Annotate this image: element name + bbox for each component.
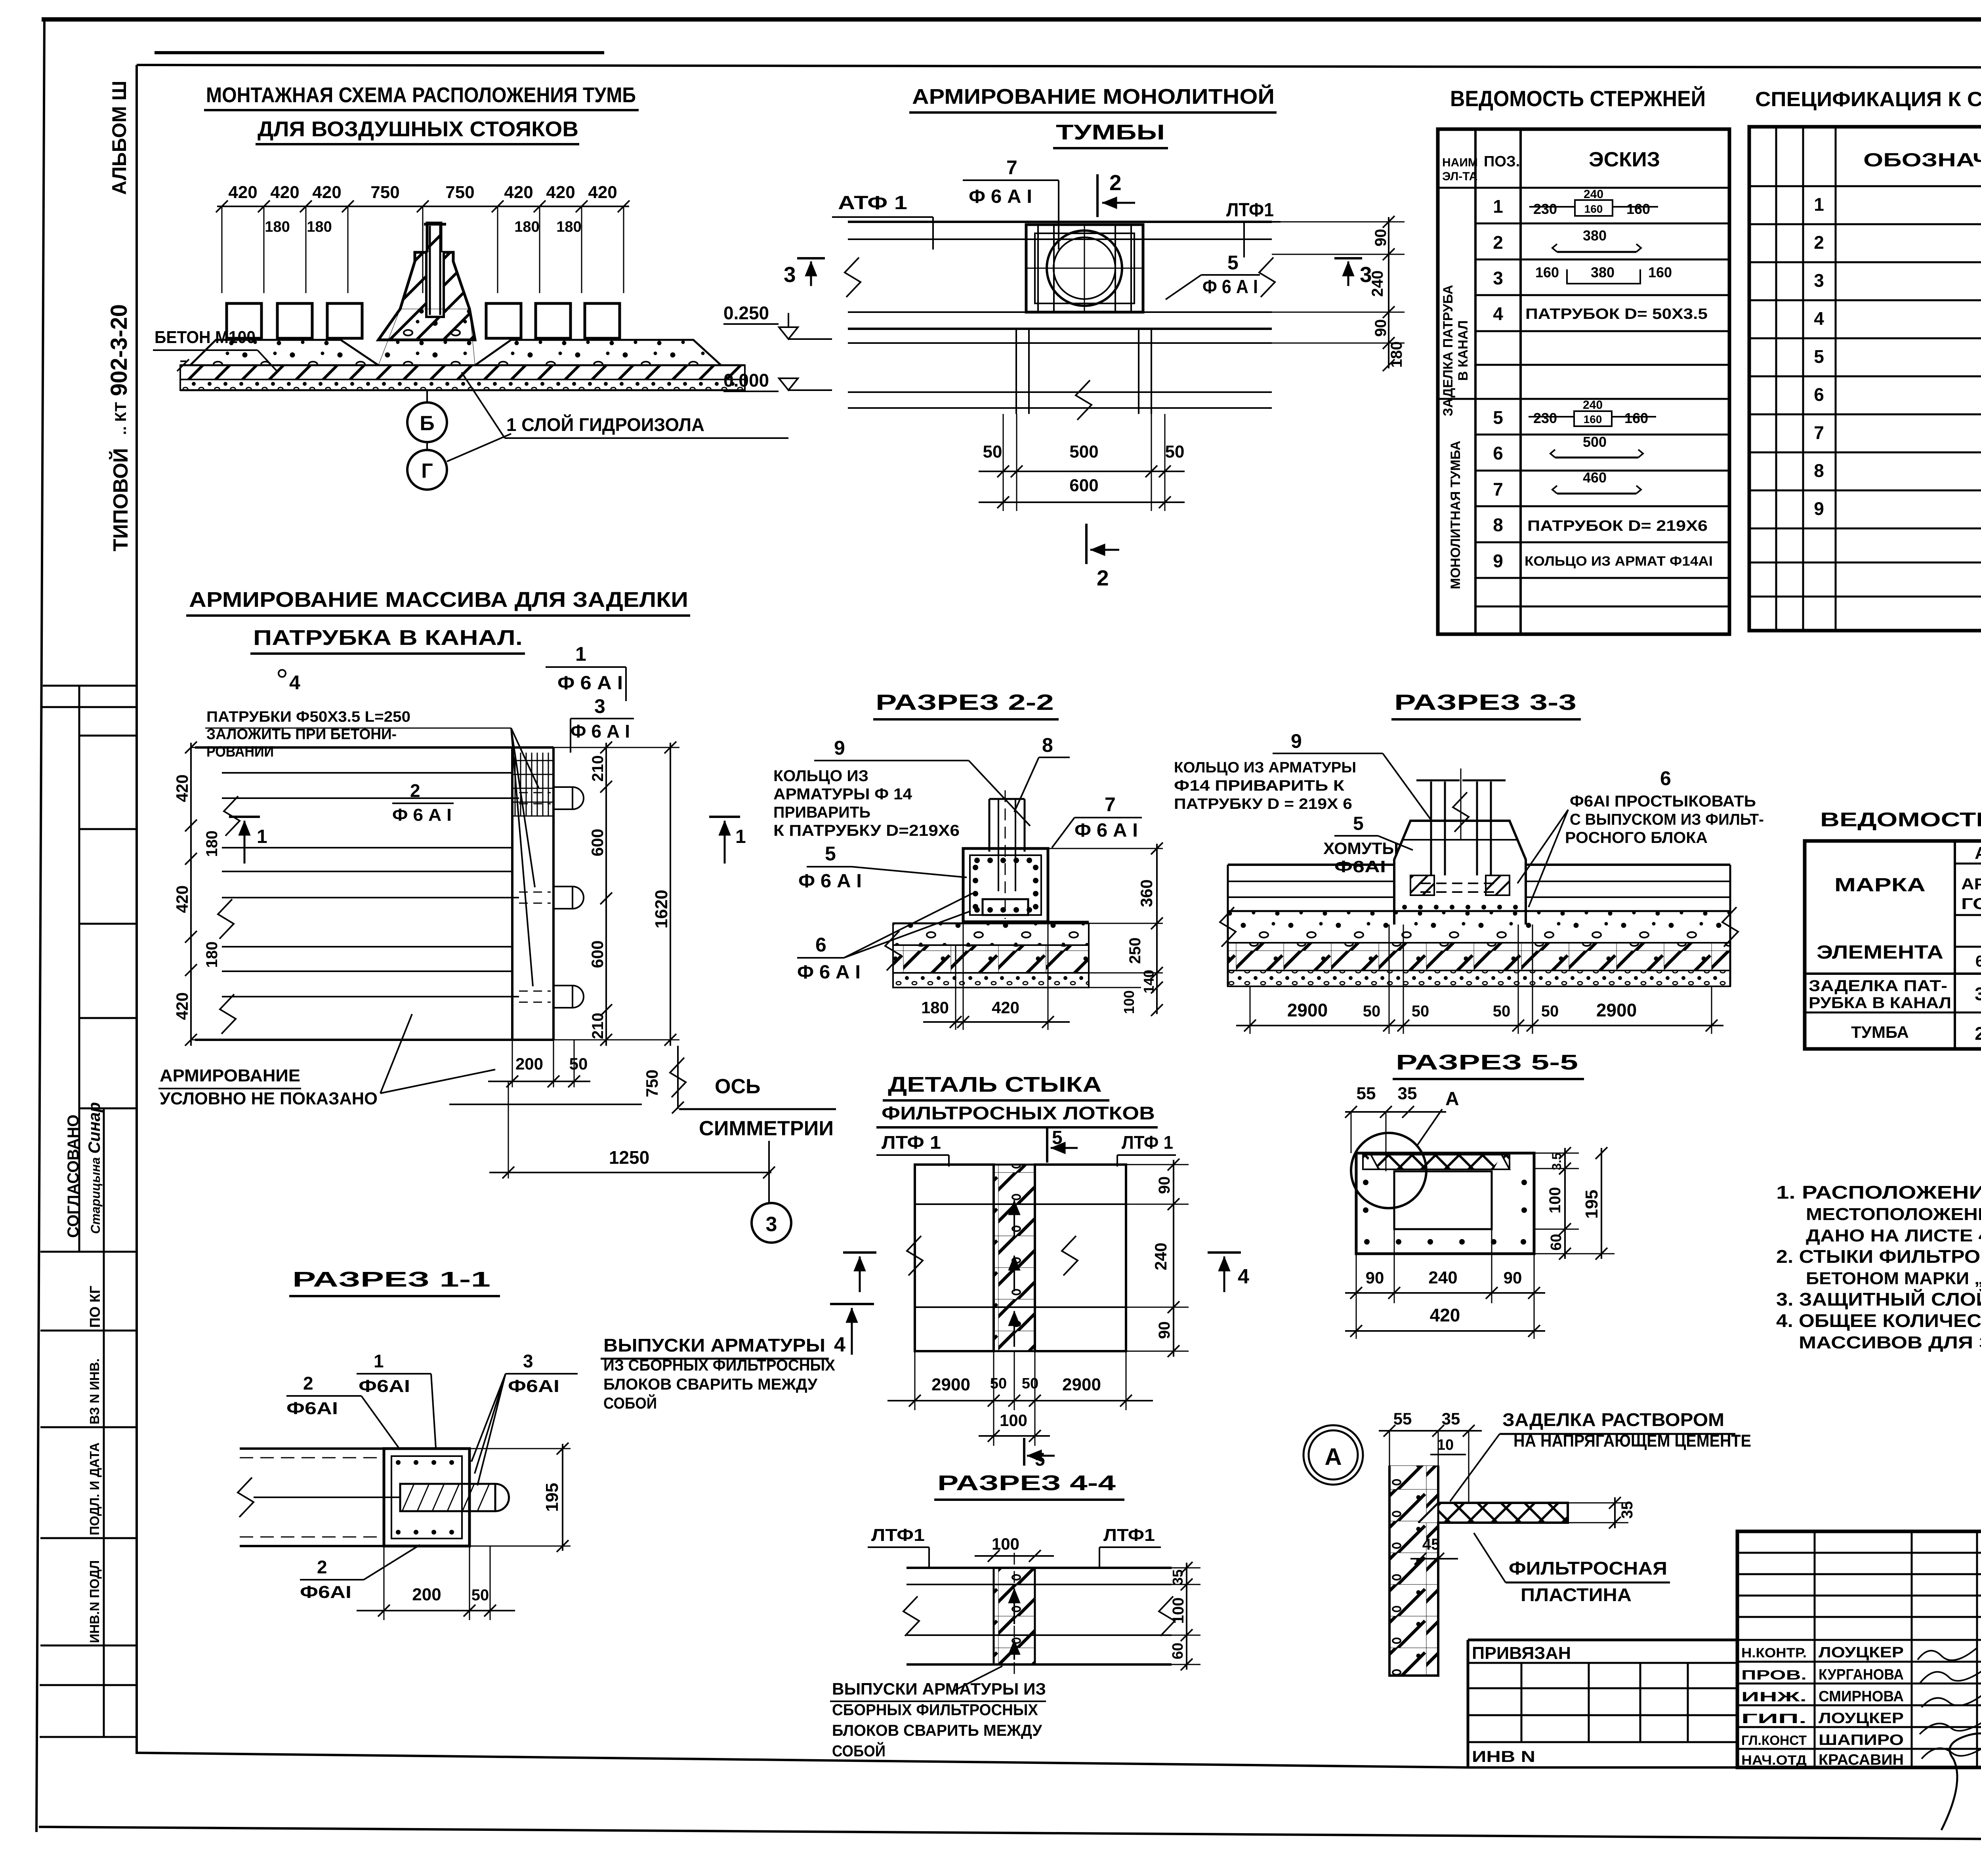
margin text Альбом Ш xyxy=(108,81,130,195)
svg-text:2900: 2900 xyxy=(1596,1000,1637,1020)
svg-text:РОВАНИИ: РОВАНИИ xyxy=(206,744,274,760)
svg-text:РОСНОГО БЛОКА: РОСНОГО БЛОКА xyxy=(1565,829,1708,846)
svg-text:2900: 2900 xyxy=(1062,1375,1101,1394)
svg-text:ЛОУЦКЕР: ЛОУЦКЕР xyxy=(1819,1644,1904,1661)
svg-text:УСЛОВНО НЕ ПОКАЗАНО: УСЛОВНО НЕ ПОКАЗАНО xyxy=(160,1089,378,1108)
svg-text:МАССИВОВ ДЛЯ ЗАДЕЛКИ ПАТРУБКА: МАССИВОВ ДЛЯ ЗАДЕЛКИ ПАТРУБКА В КАНАЛ - … xyxy=(1799,1333,1981,1352)
svg-text:ЗАДЕЛКА ПАТРУБА: ЗАДЕЛКА ПАТРУБА xyxy=(1441,285,1456,416)
drawing3 axis text Ось симметрии xyxy=(449,1075,836,1140)
section1-1 labels xyxy=(286,1351,578,1602)
svg-text:500: 500 xyxy=(1069,442,1098,461)
svg-text:БЕТОН М100: БЕТОН М100 xyxy=(155,328,256,347)
svg-text:МОНТАЖНАЯ СХЕМА РАСПОЛОЖЕНИЯ: МОНТАЖНАЯ СХЕМА РАСПОЛОЖЕНИЯ ТУМБ xyxy=(206,83,636,107)
svg-text:4: 4 xyxy=(1814,308,1824,329)
stamp signature Старицына xyxy=(85,1102,103,1234)
svg-text:ЛОУЦКЕР: ЛОУЦКЕР xyxy=(1819,1710,1904,1727)
section2-2 label 7 xyxy=(1052,793,1142,848)
svg-text:С ВЫПУСКОМ ИЗ ФИЛЬТ-: С ВЫПУСКОМ ИЗ ФИЛЬТ- xyxy=(1570,811,1764,828)
section1-1 title xyxy=(289,1268,500,1296)
detailA dims 55 35 10 xyxy=(1379,1409,1482,1503)
svg-text:250: 250 xyxy=(1126,938,1144,964)
svg-text:380: 380 xyxy=(1591,264,1615,280)
drawing2 center square with pipe circle xyxy=(1026,225,1143,312)
svg-text:4: 4 xyxy=(1238,1265,1249,1288)
svg-text:50: 50 xyxy=(990,1375,1007,1392)
section4-4 drawing xyxy=(903,1553,1175,1680)
svg-text:1: 1 xyxy=(1493,196,1503,217)
svg-text:2: 2 xyxy=(303,1373,313,1394)
svg-text:180: 180 xyxy=(265,219,290,235)
svg-text:9: 9 xyxy=(1291,730,1302,752)
svg-text:180: 180 xyxy=(921,998,949,1017)
svg-text:60: 60 xyxy=(1170,1643,1186,1659)
section5-5 right dims xyxy=(1534,1147,1615,1260)
svg-text:2: 2 xyxy=(1975,1023,1981,1044)
stamp label ВЗ N ИНВ xyxy=(87,1358,102,1424)
svg-text:3: 3 xyxy=(766,1213,777,1236)
drawing3 note армирование условно не показано xyxy=(158,1014,495,1108)
section4-4 title xyxy=(934,1471,1124,1500)
svg-text:СОБОЙ: СОБОЙ xyxy=(832,1742,886,1760)
steel table data rows xyxy=(1809,977,1981,1044)
drawing1 blocks row xyxy=(227,303,620,338)
drawing1 level mark 0.250 xyxy=(723,303,832,339)
svg-text:420: 420 xyxy=(173,774,191,802)
svg-text:ПОДЛ. И ДАТА: ПОДЛ. И ДАТА xyxy=(87,1443,102,1535)
svg-text:50: 50 xyxy=(1493,1003,1511,1020)
drawing1 label 1 слой гидроизола xyxy=(462,372,788,438)
svg-text:НАИМ: НАИМ xyxy=(1442,156,1478,169)
svg-text:420: 420 xyxy=(1430,1305,1460,1325)
drawing3 label 2 Ф6АI mid xyxy=(392,780,454,825)
svg-text:ИЗ СБОРНЫХ ФИЛЬТРОСНЫХ: ИЗ СБОРНЫХ ФИЛЬТРОСНЫХ xyxy=(603,1357,835,1374)
margin text 902-3-20 xyxy=(106,304,132,396)
drawing1 axis circles Б Г xyxy=(407,390,511,490)
svg-text:5: 5 xyxy=(1493,407,1503,428)
svg-text:СОГЛАСОВАНО: СОГЛАСОВАНО xyxy=(65,1115,82,1238)
svg-text:ГЛ.КОНСТ: ГЛ.КОНСТ xyxy=(1741,1733,1807,1748)
svg-text:90: 90 xyxy=(1372,229,1389,247)
svg-text:4: 4 xyxy=(1493,303,1503,324)
svg-text:3: 3 xyxy=(1975,984,1981,1004)
detailA drawing xyxy=(1389,1466,1568,1676)
svg-text:2900: 2900 xyxy=(931,1375,970,1394)
svg-text:АРМАТУРЫ Ф 14: АРМАТУРЫ Ф 14 xyxy=(773,785,912,803)
svg-text:180: 180 xyxy=(514,219,539,235)
svg-text:ФИЛЬТРОСНАЯ: ФИЛЬТРОСНАЯ xyxy=(1509,1558,1667,1579)
svg-text:8: 8 xyxy=(1814,460,1824,481)
svg-text:СМИРНОВА: СМИРНОВА xyxy=(1819,1688,1904,1705)
svg-text:50: 50 xyxy=(983,442,1002,461)
svg-text:ВЕДОМОСТЬ СТЕРЖНЕЙ: ВЕДОМОСТЬ СТЕРЖНЕЙ xyxy=(1450,86,1706,111)
table1 sketches xyxy=(1525,188,1713,569)
svg-text:В КАНАЛ: В КАНАЛ xyxy=(1456,320,1471,381)
svg-text:РАЗРЕЗ 1-1: РАЗРЕЗ 1-1 xyxy=(292,1268,490,1291)
title block texts xyxy=(1472,1557,1981,1769)
svg-text:50: 50 xyxy=(471,1586,489,1604)
svg-text:90: 90 xyxy=(1372,319,1389,337)
drawing2 label 5 Ф6АI xyxy=(1166,252,1260,299)
drawing3 dim 750 to axis xyxy=(643,1046,686,1113)
svg-text:ВЫПУСКИ АРМАТУРЫ ИЗ: ВЫПУСКИ АРМАТУРЫ ИЗ xyxy=(832,1680,1046,1698)
svg-text:Ф 6 А I: Ф 6 А I xyxy=(969,186,1032,207)
svg-text:160: 160 xyxy=(1648,264,1672,280)
svg-text:Ф 6 А I: Ф 6 А I xyxy=(1202,276,1258,297)
svg-text:600: 600 xyxy=(1069,476,1098,495)
svg-text:9: 9 xyxy=(834,737,845,759)
svg-text:2: 2 xyxy=(410,780,420,801)
section2-2 label 6 xyxy=(797,893,973,983)
svg-text:2: 2 xyxy=(1814,232,1824,253)
svg-text:ЭСКИЗ: ЭСКИЗ xyxy=(1589,148,1660,171)
section3-3 label 6 xyxy=(1517,767,1764,907)
svg-text:0.250: 0.250 xyxy=(723,303,769,323)
drawing2 plan band xyxy=(845,222,1275,408)
svg-text:45: 45 xyxy=(1422,1536,1440,1553)
detailA label заделка раствором xyxy=(1450,1409,1751,1501)
svg-text:1620: 1620 xyxy=(652,890,671,928)
svg-text:ИНЖ.: ИНЖ. xyxy=(1741,1689,1807,1704)
table1 header xyxy=(1442,148,1660,183)
svg-text:2: 2 xyxy=(1493,232,1503,253)
svg-text:7: 7 xyxy=(1006,156,1017,179)
svg-text:Ф6АI: Ф6АI xyxy=(1334,857,1386,876)
svg-text:Б: Б xyxy=(420,412,434,435)
section2-2 right dims xyxy=(1048,843,1163,1016)
svg-text:3: 3 xyxy=(594,695,605,717)
svg-text:90: 90 xyxy=(1156,1176,1173,1194)
svg-text:4. ОБЩЕЕ КОЛИЧЕСТВО ТУМБ ДЛЯ: 4. ОБЩЕЕ КОЛИЧЕСТВО ТУМБ ДЛЯ ВОЗДУШНЫХ С… xyxy=(1776,1310,1981,1331)
svg-text:БЛОКОВ СВАРИТЬ МЕЖДУ: БЛОКОВ СВАРИТЬ МЕЖДУ xyxy=(603,1376,818,1393)
svg-text:РАЗРЕЗ 3-3: РАЗРЕЗ 3-3 xyxy=(1394,690,1576,715)
drawing3 label 3 Ф6АI xyxy=(571,695,634,753)
svg-text:750: 750 xyxy=(370,183,399,202)
svg-text:АЛЬБОМ Ш: АЛЬБОМ Ш xyxy=(108,81,130,195)
svg-text:НА НАПРЯГАЮЩЕМ ЦЕМЕНТЕ: НА НАПРЯГАЮЩЕМ ЦЕМЕНТЕ xyxy=(1513,1431,1751,1451)
svg-text:2. СТЫКИ ФИЛЬТРОСНЫХ ЛОТКО: 2. СТЫКИ ФИЛЬТРОСНЫХ ЛОТКОВ ЗАМОНОЛИЧИВА… xyxy=(1776,1246,1981,1267)
svg-text:ДАНО НА ЛИСТЕ 4,7.: ДАНО НА ЛИСТЕ 4,7. xyxy=(1806,1226,1981,1245)
notes list xyxy=(1776,1182,1981,1352)
svg-text:420: 420 xyxy=(270,183,299,202)
svg-text:КОЛЬЦО ИЗ: КОЛЬЦО ИЗ xyxy=(773,767,868,785)
svg-text:1: 1 xyxy=(257,826,267,847)
svg-text:8: 8 xyxy=(1493,515,1503,535)
svg-text:100: 100 xyxy=(1000,1411,1027,1430)
svg-text:90: 90 xyxy=(1156,1321,1173,1339)
detailA circle xyxy=(1303,1425,1363,1485)
svg-text:50: 50 xyxy=(1022,1375,1038,1392)
svg-text:ПО КГ: ПО КГ xyxy=(87,1286,103,1328)
svg-text:240: 240 xyxy=(1583,398,1603,412)
svg-text:РУБКА В КАНАЛ: РУБКА В КАНАЛ xyxy=(1809,994,1951,1012)
section3-3 title xyxy=(1391,690,1581,719)
svg-text:ТУМБА: ТУМБА xyxy=(1851,1023,1909,1041)
svg-text:ОСЬ: ОСЬ xyxy=(715,1075,760,1098)
svg-text:ЛТФ 1: ЛТФ 1 xyxy=(1122,1132,1173,1153)
svg-text:160: 160 xyxy=(1624,410,1648,426)
svg-text:ДЛЯ ВОЗДУШНЫХ СТОЯКОВ: ДЛЯ ВОЗДУШНЫХ СТОЯКОВ xyxy=(258,117,578,141)
section1-1 upper note Выпуски арматуры 4 xyxy=(601,1304,874,1412)
svg-text:СБОРНЫХ ФИЛЬТРОСНЫХ: СБОРНЫХ ФИЛЬТРОСНЫХ xyxy=(832,1701,1038,1719)
svg-text:3.5: 3.5 xyxy=(1550,1153,1564,1170)
svg-text:50: 50 xyxy=(569,1054,588,1073)
svg-text:АРМАТУРНЫЕ ИЗДЕЛИЯ: АРМАТУРНЫЕ ИЗДЕЛИЯ xyxy=(1975,843,1981,863)
svg-text:90: 90 xyxy=(1366,1268,1384,1287)
svg-text:420: 420 xyxy=(228,183,257,202)
svg-text:600: 600 xyxy=(588,940,607,968)
svg-text:195: 195 xyxy=(1582,1190,1601,1218)
svg-text:1: 1 xyxy=(575,643,586,665)
stamp label ИНВ N ПОДЛ xyxy=(87,1560,102,1643)
svg-text:ХОМУТЫ: ХОМУТЫ xyxy=(1323,839,1399,858)
svg-text:35: 35 xyxy=(1170,1569,1186,1585)
svg-text:5: 5 xyxy=(1814,346,1824,367)
svg-text:2: 2 xyxy=(317,1557,327,1577)
svg-text:ЗАДЕЛКА ПАТ-: ЗАДЕЛКА ПАТ- xyxy=(1809,977,1947,995)
drawing2 section marks 3 xyxy=(784,258,1372,287)
section2-2 label 8 xyxy=(1014,734,1070,812)
svg-text:ДЕТАЛЬ СТЫКА: ДЕТАЛЬ СТЫКА xyxy=(888,1073,1102,1096)
svg-text:ТУМБЫ: ТУМБЫ xyxy=(1056,120,1165,144)
drawing2 label 7 Ф6АI xyxy=(963,156,1059,250)
svg-text:РАЗРЕЗ 2-2: РАЗРЕЗ 2-2 xyxy=(876,690,1054,715)
joint detail labels xyxy=(876,1127,1176,1167)
svg-text:50: 50 xyxy=(1165,442,1185,461)
svg-text:50: 50 xyxy=(1363,1003,1381,1020)
svg-text:1: 1 xyxy=(735,826,746,847)
drawing1 title xyxy=(204,83,639,144)
svg-text:3: 3 xyxy=(1493,268,1503,288)
section3-3 bottom dims xyxy=(1236,925,1723,1034)
section2-2 label 5 xyxy=(798,843,967,892)
svg-text:КРАСАВИН: КРАСАВИН xyxy=(1819,1752,1904,1768)
svg-text:ПАТРУБКУ D = 219X 6: ПАТРУБКУ D = 219X 6 xyxy=(1174,796,1352,812)
svg-text:ПОЗ.: ПОЗ. xyxy=(1484,153,1520,170)
section5-5 drawing xyxy=(1351,1133,1534,1254)
drawing2 bottom dims 50 500 50 600 xyxy=(979,414,1185,511)
left stamp column grid xyxy=(40,686,137,1737)
svg-text:МОНОЛИТНАЯ ТУМБА: МОНОЛИТНАЯ ТУМБА xyxy=(1448,441,1463,589)
svg-text:Ф6АI: Ф6АI xyxy=(300,1582,351,1602)
svg-text:АРМАТУРНАЯ СТАЛЬ: АРМАТУРНАЯ СТАЛЬ xyxy=(1961,875,1981,893)
svg-text:3: 3 xyxy=(1814,270,1824,291)
drawing2 right dim chain xyxy=(1272,216,1405,371)
svg-text:0.000: 0.000 xyxy=(723,370,769,391)
svg-text:АРМИРОВАНИЕ МАССИВА ДЛЯ ЗАД: АРМИРОВАНИЕ МАССИВА ДЛЯ ЗАДЕЛКИ xyxy=(189,588,688,612)
svg-text:Ф 6 А I: Ф 6 А I xyxy=(571,721,630,742)
table2 grid xyxy=(1749,127,1981,631)
svg-text:6: 6 xyxy=(815,934,826,956)
drawing1 pedestal xyxy=(378,223,475,340)
svg-text:600: 600 xyxy=(588,829,607,856)
svg-text:ПАТРУБКА В КАНАЛ.: ПАТРУБКА В КАНАЛ. xyxy=(253,626,523,650)
drawing2 channel below xyxy=(1016,329,1151,420)
svg-text:160: 160 xyxy=(1535,264,1559,280)
section2-2 bottom dims 180 420 xyxy=(921,922,1070,1030)
drawing1 top dimension chain xyxy=(216,183,630,293)
section5-5 top dims 55 35 A xyxy=(1345,1084,1459,1171)
svg-text:750: 750 xyxy=(643,1070,661,1097)
svg-text:Н.КОНТР.: Н.КОНТР. xyxy=(1741,1645,1807,1661)
svg-text:СПЕЦИФИКАЦИЯ К СХЕМАМ РАСПОЛОЖ: СПЕЦИФИКАЦИЯ К СХЕМАМ РАСПОЛОЖЕНИЯ АРМАТ… xyxy=(1755,88,1981,111)
svg-text:КОЛЬЦО ИЗ АРМАТУРЫ: КОЛЬЦО ИЗ АРМАТУРЫ xyxy=(1174,759,1356,776)
table1 row numbers xyxy=(1493,196,1503,571)
svg-text:МЕСТОПОЛОЖЕНИЕМ ТУМБ И ВОДОБЫБ: МЕСТОПОЛОЖЕНИЕМ ТУМБ И ВОДОБЫБРОСНЫХ СТО… xyxy=(1806,1205,1981,1224)
drawing2 section mark 2 bottom xyxy=(1086,524,1119,590)
svg-text:420: 420 xyxy=(504,183,533,202)
title block grid xyxy=(1468,1531,1981,1767)
svg-text:240: 240 xyxy=(1584,188,1603,201)
svg-text:СИММЕТРИИ: СИММЕТРИИ xyxy=(699,1117,834,1140)
svg-text:8: 8 xyxy=(1042,734,1053,756)
svg-text:420: 420 xyxy=(588,183,617,202)
svg-text:А: А xyxy=(1445,1089,1459,1110)
table2 header xyxy=(1863,145,1981,183)
svg-text:3. ЗАЩИТНЫЙ СЛОЙ БЕТОНА- 2: 3. ЗАЩИТНЫЙ СЛОЙ БЕТОНА- 20 ММ. xyxy=(1776,1289,1981,1310)
svg-text:ПРИВАРИТЬ: ПРИВАРИТЬ xyxy=(773,804,870,821)
drawing3 right dim chains xyxy=(553,742,679,1046)
svg-text:1 СЛОЙ ГИДРОИЗОЛА: 1 СЛОЙ ГИДРОИЗОЛА xyxy=(506,414,704,435)
table1 rotated group labels xyxy=(1441,285,1471,416)
svg-text:Ф6АI ПРОСТЫКОВАТЬ: Ф6АI ПРОСТЫКОВАТЬ xyxy=(1570,793,1756,810)
section3-3 label 9 кольцо xyxy=(1174,730,1431,820)
svg-text:1: 1 xyxy=(374,1351,384,1371)
section2-2 drawing xyxy=(885,790,1089,988)
svg-text:195: 195 xyxy=(542,1483,562,1512)
svg-text:9: 9 xyxy=(1493,551,1503,571)
svg-text:180: 180 xyxy=(203,831,221,857)
section5-5 title xyxy=(1393,1050,1584,1079)
drawing1 label Бетон М100 xyxy=(153,328,277,372)
svg-text:4: 4 xyxy=(289,671,300,694)
svg-text:160: 160 xyxy=(1626,201,1650,217)
svg-text:ОБОЗНАЧЕНИЕ: ОБОЗНАЧЕНИЕ xyxy=(1863,150,1981,171)
svg-text:НАЧ.ОТД: НАЧ.ОТД xyxy=(1741,1753,1807,1768)
joint detail title xyxy=(876,1073,1158,1127)
svg-text:5: 5 xyxy=(1035,1449,1045,1470)
svg-text:7: 7 xyxy=(1493,479,1503,500)
svg-text:420: 420 xyxy=(173,992,191,1020)
svg-text:3: 3 xyxy=(523,1351,533,1371)
drawing2 label ЛТФ1 xyxy=(1222,200,1281,257)
svg-text:ЛТФ 1: ЛТФ 1 xyxy=(882,1132,941,1153)
svg-text:7: 7 xyxy=(1814,422,1824,443)
svg-text:750: 750 xyxy=(445,183,474,202)
svg-text:55: 55 xyxy=(1393,1409,1412,1428)
svg-text:180: 180 xyxy=(203,942,221,968)
svg-text:180: 180 xyxy=(1388,341,1405,368)
svg-text:2900: 2900 xyxy=(1287,1000,1328,1020)
svg-text:420: 420 xyxy=(173,885,191,913)
svg-text:ЛТФ1: ЛТФ1 xyxy=(871,1525,925,1545)
svg-text:РАЗРЕЗ 5-5: РАЗРЕЗ 5-5 xyxy=(1396,1050,1578,1074)
drawing1 level mark 0.000 xyxy=(723,370,832,391)
section5-5 bottom dims xyxy=(1345,1229,1545,1339)
svg-text:АТФ 1: АТФ 1 xyxy=(838,193,907,214)
steel table title xyxy=(1820,808,1981,831)
svg-text:35: 35 xyxy=(1618,1501,1636,1519)
svg-text:160: 160 xyxy=(1584,413,1602,425)
svg-text:ЛТФ1: ЛТФ1 xyxy=(1226,200,1274,221)
svg-text:230: 230 xyxy=(1533,201,1557,217)
svg-text:55: 55 xyxy=(1357,1084,1376,1103)
svg-text:ЭЛЕМЕНТА: ЭЛЕМЕНТА xyxy=(1817,942,1943,963)
svg-text:ПЛАСТИНА: ПЛАСТИНА xyxy=(1521,1584,1632,1605)
svg-text:3: 3 xyxy=(784,262,796,287)
svg-text:9: 9 xyxy=(1814,498,1824,519)
joint detail section marks 4 xyxy=(843,1253,1249,1292)
detailA dims 35 45 xyxy=(1410,1497,1636,1565)
drawing3 section mark 1 left xyxy=(229,817,267,864)
svg-text:КОЛЬЦО ИЗ АРМАТ Ф14АI: КОЛЬЦО ИЗ АРМАТ Ф14АI xyxy=(1525,554,1713,569)
svg-text:СОБОЙ: СОБОЙ xyxy=(603,1394,657,1412)
stamp label ПО КГ xyxy=(87,1286,103,1328)
table2 position numbers xyxy=(1814,194,1824,519)
svg-text:Ф14 ПРИВАРИТЬ К: Ф14 ПРИВАРИТЬ К xyxy=(1174,778,1345,794)
svg-text:К ПАТРУБКУ D=219X6: К ПАТРУБКУ D=219X6 xyxy=(773,822,960,839)
svg-text:Ф 6 А I: Ф 6 А I xyxy=(798,871,862,892)
svg-text:ПАТРУБКИ Ф50X3.5 L=250: ПАТРУБКИ Ф50X3.5 L=250 xyxy=(206,709,410,725)
svg-text:ПРОВ.: ПРОВ. xyxy=(1741,1668,1807,1683)
joint detail bottom dims xyxy=(887,1351,1153,1470)
svg-text:35: 35 xyxy=(1398,1084,1417,1103)
svg-text:1: 1 xyxy=(1814,194,1824,215)
svg-text:360: 360 xyxy=(1137,879,1156,907)
drawing3 bottom dims 200 50 xyxy=(488,1040,590,1087)
section4-4 labels xyxy=(868,1525,1161,1567)
svg-text:60: 60 xyxy=(1548,1234,1565,1251)
svg-text:140: 140 xyxy=(1141,970,1157,993)
svg-text:ПАТРУБОК D= 50X3.5: ПАТРУБОК D= 50X3.5 xyxy=(1525,306,1708,322)
svg-text:ЭЛ-ТА: ЭЛ-ТА xyxy=(1442,170,1477,183)
joint detail right dims 90 240 90 xyxy=(1126,1159,1189,1357)
section2-2 title xyxy=(873,690,1059,719)
joint detail drawing xyxy=(907,1165,1126,1351)
svg-text:460: 460 xyxy=(1583,469,1607,486)
svg-text:ПАТРУБОК D= 219X6: ПАТРУБОК D= 219X6 xyxy=(1527,518,1708,534)
svg-text:4: 4 xyxy=(834,1333,845,1356)
svg-text:ИНВ.N ПОДЛ: ИНВ.N ПОДЛ xyxy=(87,1560,102,1643)
svg-text:210: 210 xyxy=(589,1013,607,1039)
drawing3 title xyxy=(186,588,690,654)
drawing2 section mark 2 top xyxy=(1097,170,1135,217)
margin text Типовой проект xyxy=(109,402,132,551)
section3-3 label 5 хомуты xyxy=(1323,813,1413,876)
svg-text:7: 7 xyxy=(1105,793,1116,816)
svg-text:180: 180 xyxy=(307,219,332,235)
svg-text:Г: Г xyxy=(421,459,433,482)
svg-text:6: 6 xyxy=(1493,443,1503,463)
svg-text:КУРГАНОВА: КУРГАНОВА xyxy=(1819,1666,1904,1683)
drawing3 dim 1250 and axis circle 3 xyxy=(489,1081,791,1243)
svg-text:5: 5 xyxy=(1227,252,1239,274)
svg-text:БЕТОНОМ МАРКИ „300".: БЕТОНОМ МАРКИ „300". xyxy=(1806,1269,1981,1288)
svg-text:240: 240 xyxy=(1151,1243,1170,1270)
svg-text:Ф6АI: Ф6АI xyxy=(359,1376,410,1396)
svg-text:420: 420 xyxy=(992,998,1019,1017)
svg-text:АРМИРОВАНИЕ МОНОЛИТНОЙ: АРМИРОВАНИЕ МОНОЛИТНОЙ xyxy=(912,84,1275,109)
svg-text:5: 5 xyxy=(825,843,836,865)
svg-text:420: 420 xyxy=(546,183,575,202)
svg-text:50: 50 xyxy=(1412,1003,1429,1020)
section3-3 drawing xyxy=(1220,768,1738,986)
svg-text:200: 200 xyxy=(515,1054,543,1073)
svg-text:ПРИВЯЗАН: ПРИВЯЗАН xyxy=(1472,1643,1571,1663)
svg-text:РАЗРЕЗ 4-4: РАЗРЕЗ 4-4 xyxy=(937,1471,1116,1495)
svg-text:Ф6АI: Ф6АI xyxy=(286,1399,338,1418)
stamp label ПОДЛ И ДАТА xyxy=(87,1443,102,1535)
svg-text:2: 2 xyxy=(1109,170,1122,195)
